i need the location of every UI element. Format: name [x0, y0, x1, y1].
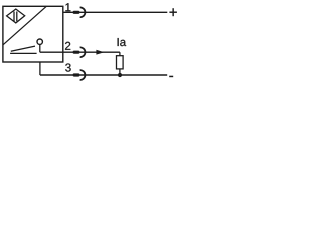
- proximity sensor diamond: [7, 9, 25, 23]
- junction dot: [118, 73, 122, 77]
- minus terminal: [169, 76, 173, 78]
- label Ia : I: [118, 38, 119, 46]
- switch fixed contact: [10, 52, 36, 54]
- sensor outline box: [3, 6, 63, 62]
- diamond inner bar left: [13, 12, 15, 22]
- switch moving contact (slant): [11, 46, 35, 51]
- load stem top: [119, 52, 121, 56]
- connector socket arc wire 3: [80, 70, 86, 80]
- load resistor box: [117, 56, 124, 69]
- connector pin wire 3: [73, 73, 80, 76]
- current arrow Ia on wire 2: [96, 50, 104, 55]
- plus terminal: [169, 8, 177, 16]
- diamond inner bar right: [16, 12, 18, 22]
- pin label 3: [65, 63, 70, 71]
- pin label 1: [65, 3, 70, 11]
- pin label 2: [65, 42, 70, 50]
- wire 3 / minus rail: [40, 74, 167, 76]
- switch output circle: [37, 39, 42, 44]
- load stem bottom: [119, 69, 121, 75]
- circle stem: [39, 44, 41, 52]
- label Ia : a: [120, 40, 126, 46]
- wire 1: [63, 11, 168, 13]
- connector socket arc wire 2: [80, 47, 86, 57]
- diagonal divider: [3, 6, 46, 45]
- wire 2: [40, 51, 120, 53]
- wire 3 drop from box: [39, 62, 41, 75]
- connector pin wire 2: [73, 51, 80, 54]
- connector socket arc wire 1: [80, 7, 86, 17]
- connector pin wire 1: [73, 11, 80, 14]
